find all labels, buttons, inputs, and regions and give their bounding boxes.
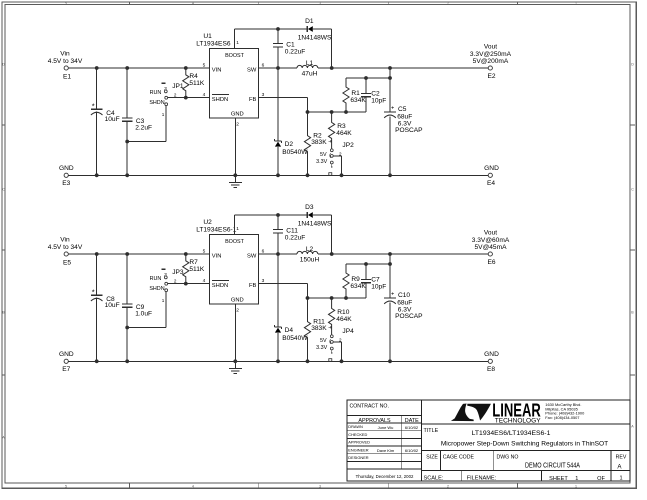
pin 1 BOOST	[236, 226, 239, 232]
svg-text:OF: OF	[597, 476, 605, 482]
svg-text:464K: 464K	[336, 316, 352, 323]
svg-text:DATE: DATE	[405, 418, 419, 424]
svg-text:2: 2	[174, 278, 177, 283]
svg-text:5: 5	[65, 1, 67, 5]
resistor R2 383K	[304, 112, 331, 175]
svg-text:SHDN: SHDN	[149, 286, 164, 292]
capacitor C11 0.22uF	[273, 215, 306, 254]
svg-text:1.0uF: 1.0uF	[135, 311, 152, 318]
junction C3 / JP tap	[125, 140, 129, 144]
svg-text:3.3V@250mA: 3.3V@250mA	[470, 51, 512, 58]
svg-text:2: 2	[447, 1, 449, 5]
wire JP select to ground	[333, 156, 341, 175]
svg-text:4.5V to 34V: 4.5V to 34V	[48, 244, 83, 251]
svg-text:Dave Kim: Dave Kim	[377, 448, 395, 453]
svg-text:Vin: Vin	[60, 236, 70, 243]
svg-text:APPROVED: APPROVED	[348, 440, 370, 445]
wire JP pin3 to ground tap	[127, 292, 166, 328]
engineer row	[348, 447, 419, 453]
jumper JP4 5V/3.3V select	[316, 328, 354, 362]
wire SW node	[259, 252, 297, 256]
wire ground rail	[68, 359, 488, 363]
svg-text:634K: 634K	[350, 283, 366, 290]
approved row	[348, 440, 370, 445]
svg-text:U1: U1	[203, 33, 212, 40]
wire Vin rail	[68, 252, 209, 256]
pin 2 GND	[236, 308, 239, 314]
designer row	[348, 455, 369, 460]
date row	[356, 474, 414, 479]
capacitor C1 0.22uF	[273, 29, 306, 68]
svg-text:Fax: (408)434-0507: Fax: (408)434-0507	[545, 415, 579, 420]
svg-text:SHDN: SHDN	[149, 100, 164, 106]
capacitor C4 10uF	[91, 68, 120, 175]
svg-text:464K: 464K	[336, 130, 352, 137]
svg-text:0.22uF: 0.22uF	[285, 234, 306, 241]
svg-text:SW: SW	[247, 253, 257, 259]
svg-text:1: 1	[236, 40, 239, 46]
svg-text:E6: E6	[487, 259, 495, 266]
svg-text:Vout: Vout	[484, 229, 497, 236]
pin 5 VIN	[203, 63, 206, 69]
svg-text:4: 4	[203, 278, 206, 284]
svg-text:GND: GND	[484, 165, 499, 172]
junction C3 / JP tap	[125, 326, 129, 330]
drawn row	[348, 424, 419, 430]
node Vin input terminal E5	[48, 236, 83, 266]
resistor R3 464K	[329, 112, 353, 149]
svg-text:4: 4	[192, 485, 194, 489]
contract no cell	[350, 403, 389, 409]
pin 6 SW	[262, 249, 265, 255]
node GND terminal E3	[59, 165, 74, 187]
logo address	[545, 402, 585, 420]
svg-text:150uH: 150uH	[300, 257, 320, 264]
svg-text:47uH: 47uH	[302, 71, 318, 78]
diode D4 B0540W	[274, 254, 308, 361]
svg-text:E4: E4	[487, 180, 495, 187]
IC U2 LT1934ES6-1 switching regulator	[196, 219, 258, 304]
resistor R4 511K	[183, 68, 205, 98]
svg-text:Vin: Vin	[60, 50, 70, 57]
svg-text:C2: C2	[371, 90, 380, 97]
inductor L2 150uH	[297, 246, 319, 264]
svg-text:SCALE:: SCALE:	[424, 476, 444, 482]
wire ground rail	[68, 173, 488, 177]
svg-text:GND: GND	[231, 298, 244, 304]
node GND terminal E8	[484, 351, 499, 373]
svg-text:*: *	[92, 288, 95, 297]
wire Vout rail	[318, 252, 488, 256]
svg-text:4: 4	[192, 1, 194, 5]
svg-text:0.22uF: 0.22uF	[285, 48, 306, 55]
svg-text:DRAWN: DRAWN	[348, 424, 363, 429]
svg-text:511K: 511K	[189, 266, 205, 273]
svg-text:1: 1	[575, 476, 578, 482]
svg-text:E8: E8	[487, 366, 495, 373]
inductor L1 47uH	[297, 60, 318, 78]
jumper JP1 RUN/SHDN select	[149, 83, 184, 117]
svg-text:10uF: 10uF	[105, 116, 120, 123]
resistor R1 634K	[343, 78, 367, 112]
svg-text:6/10/02: 6/10/02	[405, 448, 419, 453]
node Vout terminal E6	[472, 229, 510, 266]
svg-text:3.3V@60mA: 3.3V@60mA	[472, 237, 510, 244]
svg-text:BOOST: BOOST	[225, 53, 245, 59]
pin 3 FB	[262, 92, 265, 98]
svg-text:3.3V: 3.3V	[316, 159, 327, 165]
svg-text:June Wu: June Wu	[378, 425, 394, 430]
svg-text:10uF: 10uF	[105, 302, 120, 309]
svg-text:10pF: 10pF	[371, 97, 386, 104]
wire BOOST net	[235, 213, 332, 254]
svg-text:DWG NO: DWG NO	[497, 454, 519, 460]
svg-text:3: 3	[319, 485, 321, 489]
svg-text:SHDN: SHDN	[212, 97, 228, 103]
wire Vout sense tap	[346, 254, 392, 298]
svg-text:E2: E2	[487, 73, 495, 80]
approvals header	[358, 418, 419, 424]
svg-text:10pF: 10pF	[371, 283, 386, 290]
svg-text:R7: R7	[189, 259, 198, 266]
scale filename sheet cells	[424, 476, 623, 483]
svg-text:68uF: 68uF	[397, 114, 412, 121]
svg-text:GND: GND	[59, 165, 74, 172]
pin 3 FB	[262, 278, 265, 284]
svg-text:E3: E3	[62, 180, 70, 187]
svg-text:3.3V: 3.3V	[316, 345, 327, 351]
IC U1 LT1934ES6 switching regulator	[196, 33, 258, 118]
svg-text:C10: C10	[398, 292, 410, 299]
pin 5 VIN	[203, 249, 206, 255]
svg-text:2: 2	[447, 485, 449, 489]
svg-text:JP1: JP1	[172, 83, 184, 90]
svg-text:1: 1	[575, 1, 577, 5]
svg-text:C: C	[2, 188, 5, 192]
svg-text:3: 3	[319, 1, 321, 5]
wire Vout sense tap	[346, 68, 392, 112]
svg-text:4.5V to 34V: 4.5V to 34V	[48, 58, 83, 65]
svg-text:2: 2	[174, 92, 177, 97]
logo Linear Technology	[451, 401, 541, 425]
svg-text:GND: GND	[231, 112, 244, 118]
svg-text:GND: GND	[484, 351, 499, 358]
svg-text:D3: D3	[305, 204, 314, 211]
svg-text:CHECKED: CHECKED	[348, 432, 367, 437]
svg-text:5V@200mA: 5V@200mA	[473, 58, 509, 65]
title block frame	[347, 400, 630, 481]
wire JP select to ground	[333, 342, 341, 361]
svg-text:5V: 5V	[320, 338, 327, 344]
svg-text:U2: U2	[203, 219, 212, 226]
svg-text:R10: R10	[337, 309, 349, 316]
svg-text:1: 1	[162, 298, 165, 303]
svg-text:GND: GND	[59, 351, 74, 358]
svg-text:FB: FB	[249, 283, 257, 289]
svg-text:Vout: Vout	[484, 43, 497, 50]
svg-text:C11: C11	[286, 227, 298, 234]
svg-text:D2: D2	[285, 141, 294, 148]
svg-text:LT1934ES6/LT1934ES6-1: LT1934ES6/LT1934ES6-1	[472, 430, 551, 437]
svg-text:DESIGNER: DESIGNER	[348, 455, 369, 460]
capacitor C2 10pF	[361, 78, 386, 112]
svg-text:E1: E1	[63, 73, 71, 80]
svg-text:5: 5	[65, 485, 67, 489]
svg-text:1: 1	[619, 476, 622, 482]
svg-text:JP2: JP2	[342, 142, 354, 149]
svg-text:R9: R9	[351, 276, 360, 283]
svg-text:D: D	[2, 63, 5, 67]
svg-text:C5: C5	[398, 106, 407, 113]
svg-text:CAGE CODE: CAGE CODE	[443, 454, 475, 460]
svg-text:R4: R4	[189, 73, 198, 80]
svg-text:5V@45mA: 5V@45mA	[475, 244, 508, 251]
wire Vout rail	[318, 66, 488, 70]
svg-text:VIN: VIN	[212, 67, 222, 73]
wire SHDN net	[168, 282, 210, 286]
svg-text:LT1934ES6: LT1934ES6	[196, 41, 231, 48]
svg-text:RUN: RUN	[150, 90, 162, 96]
svg-text:C: C	[631, 188, 634, 192]
svg-text:R1: R1	[351, 90, 360, 97]
svg-text:E5: E5	[63, 259, 71, 266]
svg-text:R3: R3	[337, 123, 346, 130]
svg-text:E7: E7	[62, 366, 70, 373]
pin 6 SW	[262, 63, 265, 69]
node GND terminal E7	[59, 351, 74, 373]
wire SW node	[259, 66, 297, 70]
svg-text:D: D	[631, 63, 634, 67]
svg-text:SW: SW	[247, 67, 257, 73]
svg-text:FB: FB	[249, 97, 257, 103]
svg-text:DEMO CIRCUIT 544A: DEMO CIRCUIT 544A	[525, 463, 580, 470]
svg-text:383K: 383K	[311, 325, 327, 332]
svg-text:511K: 511K	[189, 80, 205, 87]
svg-text:1N4148WS: 1N4148WS	[298, 220, 332, 227]
wire BOOST net	[235, 27, 332, 68]
svg-text:634K: 634K	[350, 97, 366, 104]
diode D1 1N4148WS	[298, 18, 332, 42]
svg-text:BOOST: BOOST	[225, 239, 245, 245]
jumper JP3 RUN/SHDN select	[149, 269, 184, 303]
svg-text:2: 2	[236, 308, 239, 314]
svg-text:ENGINEER: ENGINEER	[348, 447, 369, 452]
svg-text:68uF: 68uF	[397, 300, 412, 307]
svg-text:SHDN: SHDN	[212, 283, 228, 289]
svg-text:C1: C1	[286, 41, 295, 48]
resistor R11 383K	[304, 298, 331, 361]
capacitor C10 68uF 6.3V POSCAP	[384, 292, 423, 362]
node Vout terminal E2	[470, 43, 512, 80]
node Vin input terminal E1	[48, 50, 83, 80]
svg-text:POSCAP: POSCAP	[395, 313, 423, 320]
capacitor C8 10uF	[91, 254, 120, 361]
size cage dwg cells	[426, 454, 627, 470]
wire U GND pin	[234, 118, 236, 175]
checked row	[348, 432, 367, 437]
capacitor C7 10pF	[361, 264, 386, 298]
pin 4 SHDN	[203, 92, 206, 98]
svg-text:*: *	[92, 102, 95, 111]
svg-text:D4: D4	[285, 327, 294, 334]
svg-text:C7: C7	[371, 276, 380, 283]
svg-text:1: 1	[162, 112, 165, 117]
pin 2 GND	[236, 122, 239, 128]
svg-text:1: 1	[236, 226, 239, 232]
svg-text:LT1934ES6-1: LT1934ES6-1	[196, 227, 237, 234]
svg-text:APPROVALS: APPROVALS	[358, 418, 391, 424]
capacitor C5 68uF 6.3V POSCAP	[384, 106, 423, 176]
diode D2 B0540W	[274, 68, 308, 175]
svg-text:4: 4	[203, 92, 206, 98]
svg-text:REV: REV	[616, 454, 627, 460]
svg-text:383K: 383K	[311, 139, 327, 146]
svg-text:RUN: RUN	[150, 276, 162, 282]
svg-text:1N4148WS: 1N4148WS	[298, 34, 332, 41]
svg-text:6/10/02: 6/10/02	[405, 425, 419, 430]
svg-text:1: 1	[575, 485, 577, 489]
svg-text:5: 5	[203, 249, 206, 255]
svg-text:L1: L1	[306, 60, 314, 67]
svg-text:5V: 5V	[320, 152, 327, 158]
resistor R9 634K	[343, 264, 367, 298]
svg-text:FILENAME:: FILENAME:	[467, 476, 497, 482]
svg-text:VIN: VIN	[212, 253, 222, 259]
svg-text:Thursday, December 12, 2002: Thursday, December 12, 2002	[356, 474, 414, 479]
svg-text:JP3: JP3	[172, 269, 184, 276]
svg-text:SIZE: SIZE	[426, 454, 438, 460]
svg-text:D1: D1	[305, 18, 314, 25]
pin 4 SHDN	[203, 278, 206, 284]
node GND terminal E4	[484, 165, 499, 187]
pin 1 BOOST	[236, 40, 239, 46]
wire U GND pin	[234, 304, 236, 361]
svg-text:+: +	[391, 292, 394, 298]
svg-text:SHEET: SHEET	[549, 476, 568, 482]
capacitor C9 1.0uF	[122, 254, 152, 361]
svg-text:TECHNOLOGY: TECHNOLOGY	[495, 417, 542, 424]
ground	[229, 175, 242, 187]
svg-text:5: 5	[203, 63, 206, 69]
title cell	[424, 428, 609, 448]
jumper JP2 5V/3.3V select	[316, 142, 354, 176]
wire FB net	[259, 98, 366, 114]
svg-text:2.2uF: 2.2uF	[135, 125, 152, 132]
svg-text:TITLE: TITLE	[424, 428, 439, 434]
capacitor C3 2.2uF	[122, 68, 152, 175]
ground	[229, 361, 242, 373]
wire FB net	[259, 284, 366, 300]
svg-text:Micropower Step-Down Switching: Micropower Step-Down Switching Regulator…	[441, 441, 608, 448]
svg-text:CONTRACT NO.: CONTRACT NO.	[350, 403, 389, 409]
resistor R10 464K	[329, 298, 353, 335]
svg-text:2: 2	[236, 122, 239, 128]
resistor R7 511K	[183, 254, 205, 284]
svg-text:JP4: JP4	[342, 328, 354, 335]
wire JP pin3 to ground tap	[127, 106, 166, 142]
svg-text:POSCAP: POSCAP	[395, 127, 423, 134]
svg-text:L2: L2	[306, 246, 314, 253]
diode D3 1N4148WS	[298, 204, 332, 228]
wire SHDN net	[168, 96, 210, 100]
svg-text:+: +	[391, 106, 394, 112]
wire Vin rail	[68, 66, 209, 70]
